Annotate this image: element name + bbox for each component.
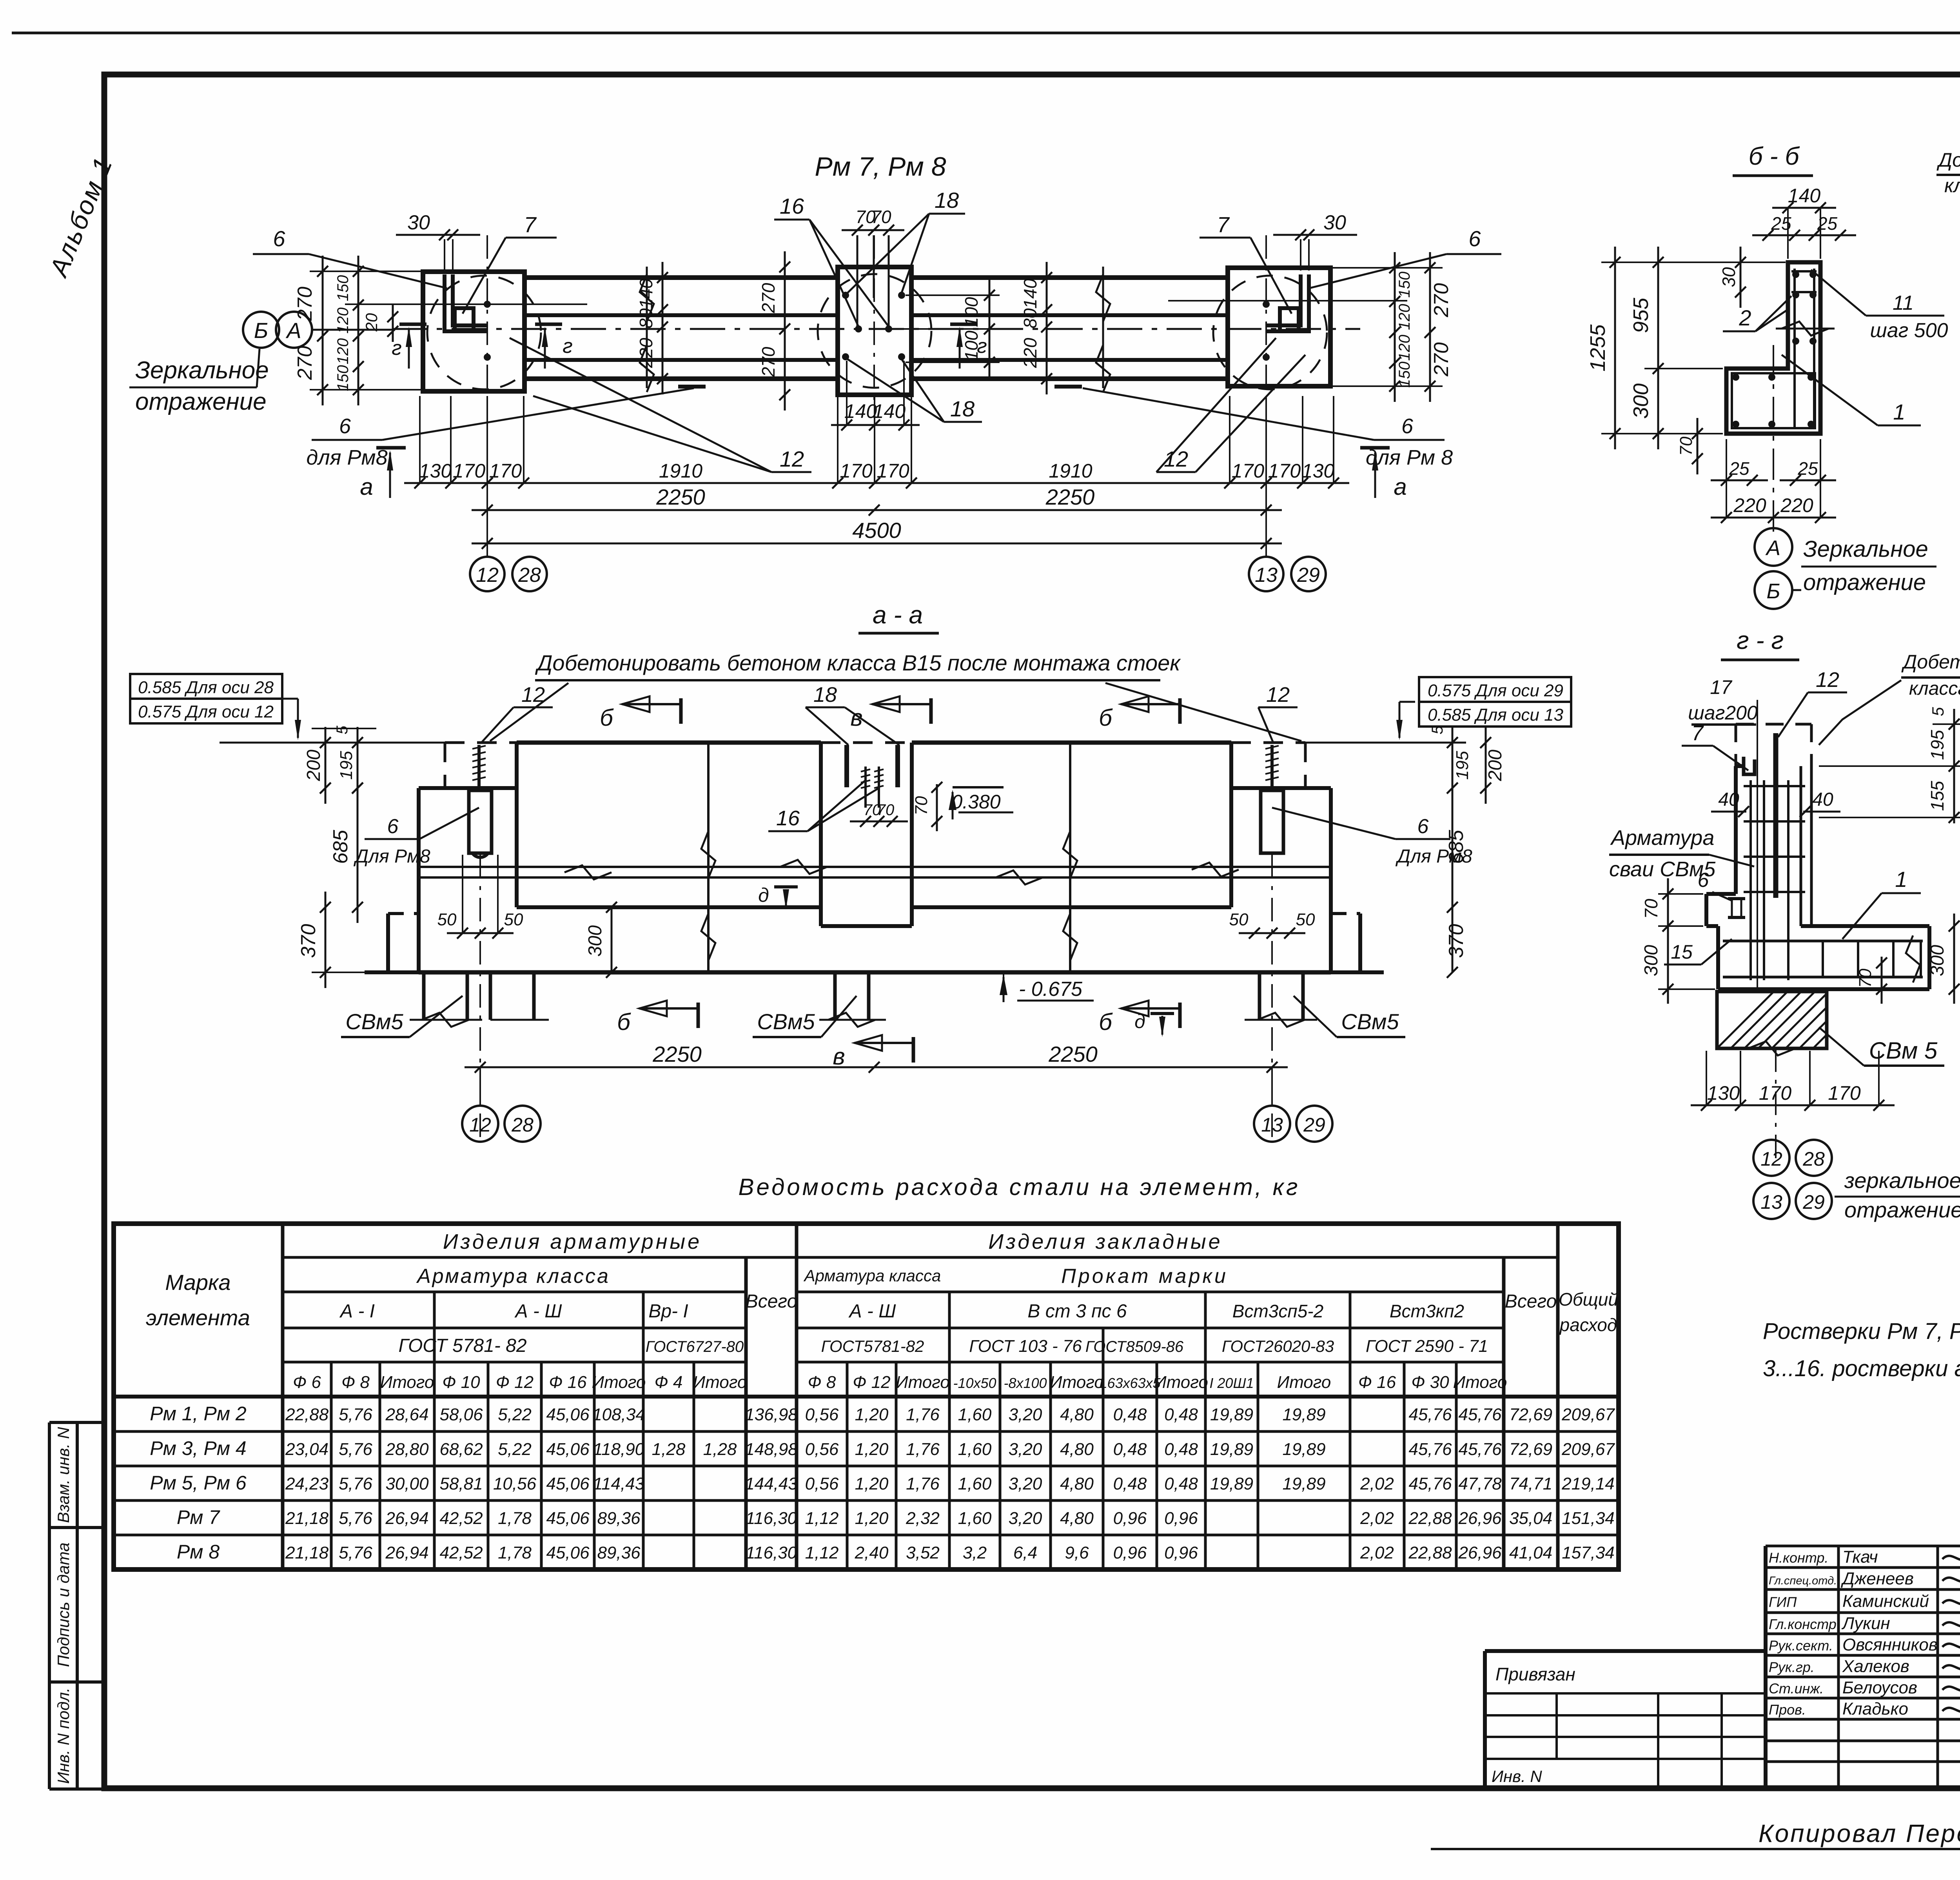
svg-text:Итого: Итого <box>1453 1373 1507 1392</box>
svg-text:150: 150 <box>334 275 352 302</box>
svg-text:Б: Б <box>254 318 268 343</box>
svg-text:270: 270 <box>1430 342 1453 377</box>
g-g grid circles <box>1753 1140 1789 1176</box>
svg-text:в: в <box>833 1043 845 1070</box>
svg-text:140: 140 <box>636 278 656 309</box>
svg-text:4,80: 4,80 <box>1060 1509 1094 1528</box>
svg-text:а: а <box>360 474 373 500</box>
svg-text:45,76: 45,76 <box>1458 1440 1502 1459</box>
g-g foot <box>1706 892 1736 896</box>
svg-text:2,02: 2,02 <box>1360 1543 1394 1562</box>
svg-text:6: 6 <box>339 414 351 438</box>
svg-text:Итого: Итого <box>896 1373 950 1392</box>
plan: beam edges bay 1 <box>524 275 838 280</box>
a-a center cap anchors <box>844 745 849 787</box>
svg-text:3,2: 3,2 <box>963 1543 987 1562</box>
svg-text:685: 685 <box>1445 830 1468 864</box>
svg-text:72,69: 72,69 <box>1509 1405 1552 1424</box>
svg-text:1,60: 1,60 <box>958 1440 992 1459</box>
svg-text:12: 12 <box>1760 1148 1782 1170</box>
svg-text:220: 220 <box>1020 338 1040 368</box>
svg-text:Привязан: Привязан <box>1495 1664 1575 1684</box>
svg-text:зеркальное: зеркальное <box>1844 1168 1960 1193</box>
svg-text:19,89: 19,89 <box>1210 1440 1253 1459</box>
svg-text:Рм 3, Рм 4: Рм 3, Рм 4 <box>150 1437 246 1459</box>
svg-text:45,76: 45,76 <box>1408 1474 1452 1493</box>
svg-text:220: 220 <box>1733 494 1766 516</box>
svg-text:5,76: 5,76 <box>339 1440 372 1459</box>
svg-text:Общий: Общий <box>1559 1289 1618 1310</box>
plan: left cap channel detail <box>445 274 487 331</box>
svg-text:30: 30 <box>407 211 430 234</box>
svg-text:I 20Ш1: I 20Ш1 <box>1209 1375 1254 1391</box>
svg-text:5,22: 5,22 <box>498 1405 532 1424</box>
b-b dim 955/300 <box>1657 247 1659 449</box>
svg-text:12: 12 <box>1816 668 1839 692</box>
svg-text:5,22: 5,22 <box>498 1440 532 1459</box>
svg-text:б - б: б - б <box>1749 142 1800 170</box>
svg-text:0,96: 0,96 <box>1113 1509 1147 1528</box>
table outer border <box>114 1224 1619 1569</box>
svg-text:элемента: элемента <box>146 1305 250 1330</box>
svg-text:0,48: 0,48 <box>1164 1405 1198 1424</box>
plan: right outer vdim <box>1429 252 1431 402</box>
svg-text:100: 100 <box>961 331 982 361</box>
plan: right cap channel detail <box>1266 274 1309 331</box>
svg-text:-10х50: -10х50 <box>953 1375 996 1391</box>
svg-text:Инв. N подл.: Инв. N подл. <box>54 1687 73 1784</box>
a-a dashed cap verticals <box>444 743 446 788</box>
svg-text:80: 80 <box>1020 308 1040 329</box>
plan: left inner vdim 150/120/120/150 <box>358 256 359 405</box>
svg-text:16: 16 <box>776 806 800 830</box>
table vertical lines <box>281 1224 285 1569</box>
svg-text:0,56: 0,56 <box>805 1474 839 1493</box>
svg-text:1,20: 1,20 <box>855 1405 889 1424</box>
svg-text:100: 100 <box>961 297 982 327</box>
a-a anchor right cap <box>1261 790 1283 853</box>
svg-text:219,14: 219,14 <box>1561 1474 1615 1493</box>
svg-text:д: д <box>1134 1010 1145 1032</box>
svg-text:Ростверки Рм 7, Рм 8 разработа: Ростверки Рм 7, Рм 8 разработаны для теп… <box>1763 1319 1960 1344</box>
svg-text:6: 6 <box>1401 414 1414 438</box>
svg-text:0,56: 0,56 <box>805 1440 839 1459</box>
plan: right pile cap <box>1228 268 1330 386</box>
g-g anchor bolt left <box>1728 897 1745 900</box>
svg-text:170: 170 <box>1268 460 1301 482</box>
svg-text:150: 150 <box>1396 361 1413 388</box>
svg-text:отражение: отражение <box>135 388 267 415</box>
svg-text:3,20: 3,20 <box>1009 1405 1042 1424</box>
svg-text:12: 12 <box>476 564 499 587</box>
svg-text:170: 170 <box>1828 1082 1861 1104</box>
svg-text:68,62: 68,62 <box>439 1440 483 1459</box>
svg-text:а: а <box>1394 474 1406 500</box>
svg-text:30: 30 <box>1719 267 1739 287</box>
svg-text:10,56: 10,56 <box>493 1474 537 1493</box>
svg-text:5: 5 <box>1429 725 1446 734</box>
a-a section mark д right of centre cap <box>774 885 798 888</box>
svg-text:13: 13 <box>1261 1114 1283 1136</box>
svg-text:108,34: 108,34 <box>592 1405 645 1424</box>
svg-text:26,96: 26,96 <box>1458 1509 1502 1528</box>
svg-text:144,43: 144,43 <box>745 1474 798 1493</box>
svg-text:12: 12 <box>1266 683 1290 707</box>
svg-text:45,76: 45,76 <box>1408 1440 1452 1459</box>
table horizontal lines <box>283 1256 797 1259</box>
svg-text:0,96: 0,96 <box>1164 1509 1198 1528</box>
svg-text:29: 29 <box>1303 1114 1325 1136</box>
a-a grid circles <box>479 1067 481 1106</box>
svg-text:0,56: 0,56 <box>805 1405 839 1424</box>
svg-text:45,76: 45,76 <box>1408 1405 1452 1424</box>
svg-text:г: г <box>563 335 573 358</box>
b-b outline <box>1726 262 1820 434</box>
svg-text:1,20: 1,20 <box>855 1440 889 1459</box>
svg-text:2,02: 2,02 <box>1360 1474 1394 1493</box>
g-g hook detail top <box>1744 757 1755 774</box>
svg-text:отражение: отражение <box>1803 570 1926 595</box>
plan: dim row 130/170/... <box>404 482 1349 484</box>
svg-text:Изделия арматурные: Изделия арматурные <box>443 1230 702 1253</box>
plan: dim 140 140 center bottom <box>831 424 920 426</box>
a-a left step foot <box>388 912 419 915</box>
svg-text:4,80: 4,80 <box>1060 1474 1094 1493</box>
svg-text:2250: 2250 <box>652 1042 702 1066</box>
svg-text:СВм5: СВм5 <box>345 1009 403 1034</box>
svg-text:28: 28 <box>511 1114 534 1136</box>
svg-text:370: 370 <box>297 924 320 958</box>
svg-text:28: 28 <box>1802 1148 1825 1170</box>
svg-text:58,81: 58,81 <box>439 1474 483 1493</box>
svg-text:19,89: 19,89 <box>1210 1474 1253 1493</box>
svg-text:16: 16 <box>780 194 804 218</box>
b-b dim 140 top <box>1772 207 1836 209</box>
svg-text:А - Ш: А - Ш <box>848 1301 897 1322</box>
svg-text:25: 25 <box>1817 213 1838 234</box>
g-g dim 70/300 left <box>1667 878 1669 1004</box>
svg-text:3...16. ростверки аналогичны: 3...16. ростверки аналогичны <box>1763 1356 1960 1381</box>
svg-text:195: 195 <box>1927 730 1947 760</box>
a-a section mark в upper <box>929 698 933 724</box>
svg-text:12: 12 <box>521 683 545 707</box>
a-a dim 50/50 left <box>447 932 514 934</box>
svg-text:140: 140 <box>1788 185 1821 207</box>
sheet top trim line <box>12 32 1960 35</box>
svg-text:45,06: 45,06 <box>546 1543 590 1562</box>
svg-text:114,43: 114,43 <box>593 1474 645 1493</box>
plan: left extension lines <box>310 271 423 272</box>
svg-text:4,80: 4,80 <box>1060 1405 1094 1424</box>
svg-text:23,04: 23,04 <box>285 1440 328 1459</box>
svg-text:Марка: Марка <box>165 1270 230 1295</box>
svg-text:0.585 Для оси 28: 0.585 Для оси 28 <box>138 678 274 697</box>
plan: vdim 220/80/140 bay1 <box>662 262 664 394</box>
svg-text:Пров.: Пров. <box>1769 1702 1806 1718</box>
svg-text:7: 7 <box>524 212 537 237</box>
svg-text:170: 170 <box>489 460 522 482</box>
svg-text:Ф 16: Ф 16 <box>1358 1373 1396 1392</box>
plan: grid circles 13 29 <box>1249 557 1283 591</box>
svg-text:19,89: 19,89 <box>1282 1474 1325 1493</box>
a-a right vdims <box>1452 727 1454 804</box>
svg-text:5,76: 5,76 <box>339 1509 372 1528</box>
svg-text:140: 140 <box>844 400 877 422</box>
svg-text:Зеркальное: Зеркальное <box>1803 536 1928 562</box>
b-b centreline <box>1773 345 1774 533</box>
svg-text:2,40: 2,40 <box>855 1543 889 1562</box>
a-a section marks б lower <box>697 1003 700 1028</box>
svg-text:класса В15 после монтажа стоек: класса В15 после монтажа стоек <box>1909 678 1960 699</box>
svg-text:2,02: 2,02 <box>1360 1509 1394 1528</box>
svg-text:12: 12 <box>780 447 804 471</box>
svg-text:Арматура класса: Арматура класса <box>803 1266 941 1285</box>
plan: left outer vdim 270/270 <box>322 256 324 405</box>
svg-text:Гл.спец.отд.: Гл.спец.отд. <box>1769 1575 1837 1587</box>
svg-text:148,98: 148,98 <box>745 1440 798 1459</box>
svg-text:б: б <box>1099 705 1113 731</box>
a-a anchor details left cap <box>469 790 492 853</box>
plan: right extension lines <box>1330 267 1443 269</box>
svg-text:Арматура класса: Арматура класса <box>416 1265 610 1288</box>
svg-text:д: д <box>758 884 769 906</box>
svg-text:Ф 4: Ф 4 <box>655 1373 683 1392</box>
svg-text:29: 29 <box>1802 1191 1825 1213</box>
svg-text:ГОСТ 5781- 82: ГОСТ 5781- 82 <box>398 1335 526 1356</box>
svg-text:130: 130 <box>1302 460 1335 482</box>
svg-text:- 0.675: - 0.675 <box>1019 978 1083 1001</box>
a-a dim 70 / 0.380 <box>936 784 938 831</box>
svg-text:29: 29 <box>1297 564 1320 587</box>
svg-text:15: 15 <box>1671 941 1693 963</box>
svg-text:18: 18 <box>935 188 959 213</box>
a-a beam top edge <box>445 741 517 744</box>
svg-text:130: 130 <box>1707 1082 1740 1104</box>
svg-text:-8х100: -8х100 <box>1004 1375 1047 1391</box>
svg-text:Итого: Итого <box>380 1373 434 1392</box>
svg-text:26,96: 26,96 <box>1458 1543 1502 1562</box>
svg-text:120: 120 <box>1396 304 1413 330</box>
plan: beam edges bay 2 <box>911 275 1228 280</box>
svg-text:6: 6 <box>273 226 285 251</box>
svg-text:Н.контр.: Н.контр. <box>1769 1550 1828 1566</box>
b-b dims 25/25 bottom <box>1711 480 1768 481</box>
g-g stirrups in column <box>1744 785 1805 787</box>
svg-text:1,78: 1,78 <box>498 1509 532 1528</box>
svg-text:Ведомость расхода стали на: Ведомость расхода стали на элемент, кг <box>738 1174 1300 1200</box>
plan: beam break marks <box>646 267 648 388</box>
svg-text:270: 270 <box>758 283 779 313</box>
svg-text:Кладько: Кладько <box>1842 1699 1908 1718</box>
svg-text:5,76: 5,76 <box>339 1543 372 1562</box>
svg-text:120: 120 <box>1396 335 1413 361</box>
plan: dim row 2250/2250 <box>472 509 1282 511</box>
svg-text:6: 6 <box>387 815 399 838</box>
plan: center pile cap <box>838 267 911 395</box>
svg-text:13: 13 <box>1255 564 1278 587</box>
svg-text:17: 17 <box>1710 676 1733 698</box>
svg-text:1,76: 1,76 <box>906 1440 940 1459</box>
svg-text:А - Ш: А - Ш <box>514 1301 563 1322</box>
svg-text:1,60: 1,60 <box>958 1405 992 1424</box>
svg-text:2250: 2250 <box>656 485 705 509</box>
svg-text:220: 220 <box>636 338 656 368</box>
b-b dim 220/220 <box>1711 517 1836 519</box>
svg-text:Гл.констр: Гл.констр <box>1769 1616 1837 1632</box>
svg-text:0.575 Для оси 29: 0.575 Для оси 29 <box>1428 681 1563 700</box>
svg-text:Рм 1, Рм 2: Рм 1, Рм 2 <box>150 1403 247 1425</box>
svg-text:б: б <box>617 1009 631 1035</box>
svg-text:Ф 30: Ф 30 <box>1411 1373 1449 1392</box>
svg-text:Изделия закладные: Изделия закладные <box>988 1230 1222 1253</box>
svg-text:24,23: 24,23 <box>285 1474 329 1493</box>
a-a left vdims 200/195/685/370 <box>325 727 327 804</box>
plan: left pile cap <box>423 272 524 391</box>
svg-text:370: 370 <box>1445 924 1468 958</box>
svg-text:70: 70 <box>1856 968 1875 988</box>
svg-text:6,4: 6,4 <box>1013 1543 1037 1562</box>
svg-text:40: 40 <box>1812 789 1833 810</box>
title block staff table <box>1766 1545 1960 1548</box>
svg-text:28,80: 28,80 <box>385 1440 429 1459</box>
svg-text:Подпись и дата: Подпись и дата <box>54 1542 73 1667</box>
g-g foot ladder rebar <box>1723 940 1923 943</box>
svg-text:209,67: 209,67 <box>1561 1405 1615 1424</box>
svg-text:Вст3сп5-2: Вст3сп5-2 <box>1232 1301 1323 1321</box>
svg-text:ГОСТ 2590 - 71: ГОСТ 2590 - 71 <box>1366 1337 1488 1356</box>
svg-text:170: 170 <box>1232 460 1265 482</box>
svg-text:шаг200: шаг200 <box>1688 702 1758 724</box>
svg-text:58,06: 58,06 <box>439 1405 483 1424</box>
svg-text:150: 150 <box>334 365 352 391</box>
svg-text:45,76: 45,76 <box>1458 1405 1502 1424</box>
plan: cap centrelines <box>486 235 488 406</box>
svg-text:18: 18 <box>950 396 975 421</box>
svg-text:ГОСТ 103 - 76: ГОСТ 103 - 76 <box>969 1337 1082 1356</box>
svg-text:7: 7 <box>1217 212 1230 237</box>
svg-text:5,76: 5,76 <box>339 1405 372 1424</box>
svg-text:200: 200 <box>1485 750 1506 781</box>
svg-text:б: б <box>1099 1009 1113 1035</box>
svg-text:685: 685 <box>329 830 352 864</box>
a-a dim 50/50 right <box>1239 932 1305 934</box>
privyazan block <box>1485 1649 1766 1653</box>
svg-text:Ф 8: Ф 8 <box>808 1373 836 1392</box>
svg-text:отражение: отражение <box>1844 1197 1960 1222</box>
b-b dim 70 <box>1697 418 1699 474</box>
a-a dims 2250/2250 <box>465 1066 1288 1068</box>
plan: section mark a left <box>376 446 406 450</box>
svg-text:70: 70 <box>1677 436 1696 456</box>
svg-text:Б: Б <box>1766 579 1780 603</box>
svg-text:2250: 2250 <box>1048 1042 1098 1066</box>
svg-text:25: 25 <box>1729 458 1749 479</box>
svg-text:Всего: Всего <box>1505 1291 1557 1312</box>
svg-text:1,28: 1,28 <box>703 1440 737 1459</box>
plan: dim row 4500 <box>472 543 1282 545</box>
plan: grid circles Б А left <box>243 312 279 348</box>
plan: top dim 30 left <box>396 234 480 236</box>
svg-text:300: 300 <box>1641 945 1662 976</box>
svg-text:70: 70 <box>871 207 891 227</box>
svg-text:220: 220 <box>1780 494 1813 516</box>
svg-text:70: 70 <box>1641 899 1661 919</box>
plan: grid circles 12 28 <box>470 557 505 591</box>
svg-text:30,00: 30,00 <box>385 1474 429 1493</box>
svg-text:150: 150 <box>1396 272 1413 298</box>
svg-text:Лукин: Лукин <box>1841 1614 1890 1633</box>
svg-text:0.575 Для оси 12: 0.575 Для оси 12 <box>138 702 274 721</box>
g-g dim 70 bottom <box>1881 957 1883 1004</box>
a-a section mark д lower right <box>1151 1012 1174 1015</box>
svg-text:Копировал Перелыгина: Копировал Перелыгина <box>1759 1819 1960 1847</box>
svg-text:1,78: 1,78 <box>498 1543 532 1562</box>
a-a piles <box>422 972 426 1020</box>
svg-text:0.380: 0.380 <box>951 791 1000 813</box>
svg-text:Рм 8: Рм 8 <box>177 1541 220 1563</box>
svg-text:ГОСТ26020-83: ГОСТ26020-83 <box>1222 1337 1334 1355</box>
svg-text:Каминский: Каминский <box>1842 1592 1929 1611</box>
svg-text:19,89: 19,89 <box>1210 1405 1253 1424</box>
svg-text:170: 170 <box>453 460 486 482</box>
svg-text:300: 300 <box>1927 945 1948 976</box>
svg-text:26,94: 26,94 <box>385 1509 428 1528</box>
plan: g-anchor mark left <box>399 323 426 326</box>
svg-text:116,30: 116,30 <box>746 1509 797 1528</box>
svg-text:50: 50 <box>504 910 523 929</box>
plan: anchor dots <box>842 292 849 299</box>
svg-text:22,88: 22,88 <box>1408 1509 1452 1528</box>
left margin stamp strip <box>48 1422 51 1789</box>
svg-text:а - а: а - а <box>873 601 923 629</box>
svg-text:Белоусов: Белоусов <box>1842 1678 1917 1697</box>
plan: g-anchor mark center <box>950 323 977 326</box>
svg-text:13: 13 <box>1760 1191 1782 1213</box>
svg-text:г - г: г - г <box>1737 626 1784 654</box>
svg-text:4500: 4500 <box>852 518 901 543</box>
svg-text:1255: 1255 <box>1586 324 1610 371</box>
svg-text:300: 300 <box>1629 383 1653 419</box>
svg-text:Рм 5, Рм 6: Рм 5, Рм 6 <box>150 1472 247 1494</box>
svg-text:Итого: Итого <box>693 1373 747 1392</box>
svg-text:Для Рм8: Для Рм8 <box>353 846 430 867</box>
svg-text:200: 200 <box>303 750 324 781</box>
svg-text:3,20: 3,20 <box>1009 1509 1042 1528</box>
g-g column <box>1734 766 1738 894</box>
svg-text:СВм5: СВм5 <box>757 1009 815 1034</box>
plan: centreline <box>392 328 1360 330</box>
signatures squiggles <box>1942 1551 1960 1715</box>
svg-text:Ст.инж.: Ст.инж. <box>1769 1680 1824 1697</box>
svg-text:120: 120 <box>334 307 352 334</box>
svg-text:Итого: Итого <box>1154 1373 1208 1392</box>
plan: dim 70 70 center <box>842 229 904 231</box>
svg-text:42,52: 42,52 <box>439 1543 483 1562</box>
svg-text:1,76: 1,76 <box>906 1474 940 1493</box>
sheet bottom trim line <box>1431 1848 1960 1850</box>
svg-text:209,67: 209,67 <box>1561 1440 1615 1459</box>
svg-text:22,88: 22,88 <box>285 1405 329 1424</box>
plan: g-anchor mark right <box>535 323 562 326</box>
b-b break mark <box>1776 328 1835 330</box>
svg-text:130: 130 <box>419 460 452 482</box>
svg-text:45,06: 45,06 <box>546 1509 590 1528</box>
svg-text:для Рм8: для Рм8 <box>306 446 387 469</box>
svg-text:30: 30 <box>1323 211 1346 234</box>
svg-text:270: 270 <box>758 347 779 377</box>
svg-text:151,34: 151,34 <box>1562 1509 1615 1528</box>
svg-text:2: 2 <box>1739 305 1751 330</box>
